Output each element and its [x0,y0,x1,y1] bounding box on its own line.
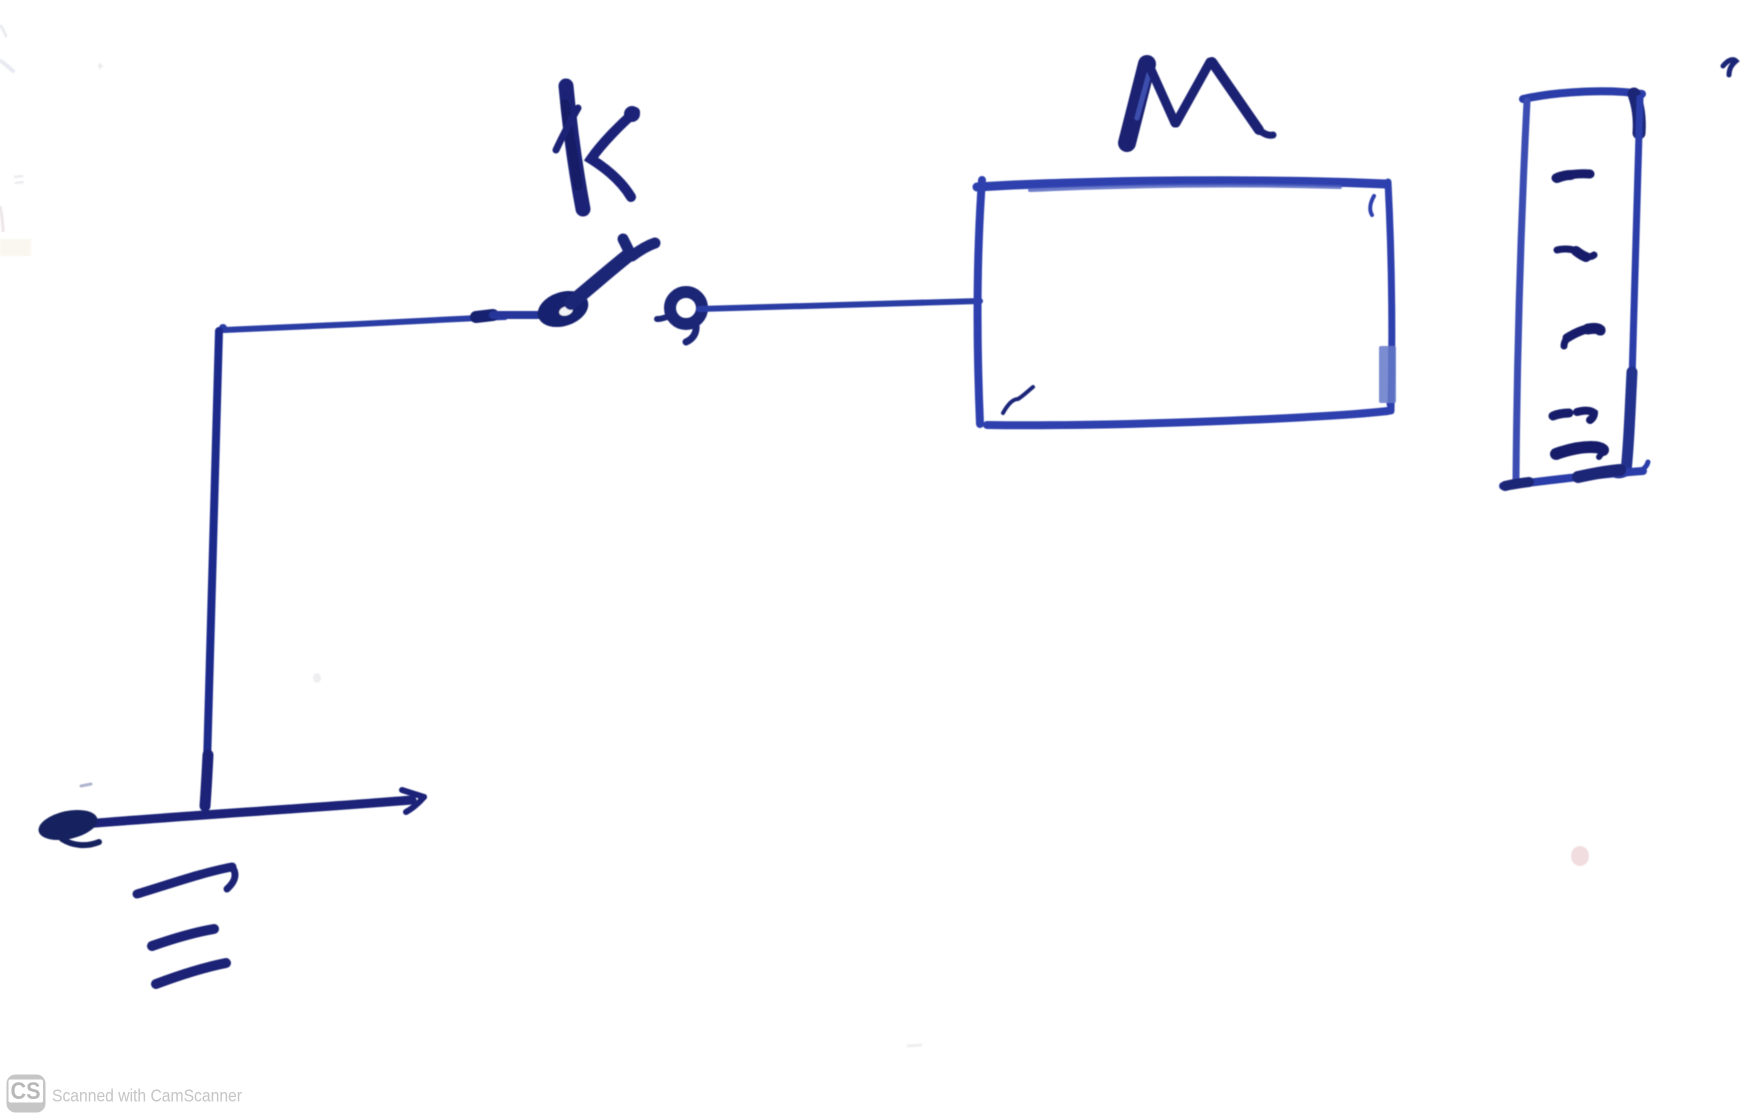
stray pink dot [1571,846,1589,866]
stray apostrophe mark top right [1723,60,1736,75]
CamScanner CS badge [7,1075,46,1113]
label M [1127,62,1273,143]
motor box right-edge marker patch [1379,346,1396,403]
battery dash 2 [1557,249,1594,257]
svg-text:CS: CS [11,1078,41,1105]
switch K lever arm with forked tip [571,239,655,303]
wire: switch K to motor box M [699,301,980,309]
battery dash 1 [1556,174,1590,178]
wire: left horizontal segment from corner node to switch K [219,315,538,332]
battery dash 5 [1556,447,1603,457]
switch K left contact blob [533,285,593,333]
ground bar 2 [152,929,214,946]
label K [556,86,640,209]
ground bar 3 [156,963,226,984]
wire: left vertical branch down to ground [205,331,219,806]
ground bar 1 [137,867,235,894]
motor box M outline [977,180,1392,425]
small mark inside motor box top-right [1370,196,1374,215]
faint paper smudges [0,26,922,1046]
switch K right contact ring [657,292,702,342]
battery element outline [1503,91,1648,486]
ground symbol: horizontal line with arrowhead [36,784,424,845]
battery dash 3 [1564,328,1601,346]
svg-text:Scanned with CamScanner: Scanned with CamScanner [52,1086,242,1106]
small tick inside motor box bottom-left [1003,387,1033,413]
battery dash 4 [1553,411,1594,420]
